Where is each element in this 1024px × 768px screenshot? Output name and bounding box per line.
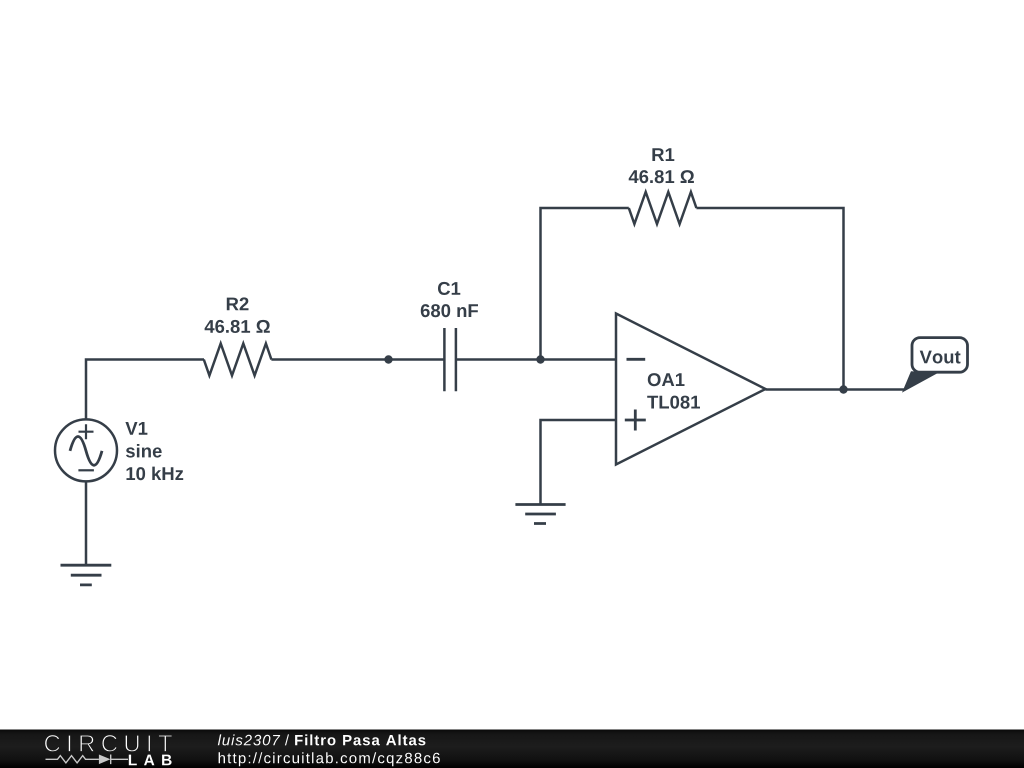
resistor R2	[204, 344, 272, 376]
V1 sine wave	[70, 437, 102, 466]
wire: op-amp output to Vout	[766, 388, 906, 391]
op-amp OA1 minus pin mark	[627, 358, 646, 361]
CircuitLab logo text LAB	[129, 755, 172, 766]
op-amp OA1 plus pin mark	[625, 410, 646, 431]
footer title	[218, 734, 280, 745]
wire: V1 plus terminal up and right to R2	[86, 360, 204, 421]
node: junction C1/feedback	[536, 355, 544, 363]
value label OA1 TL081	[647, 396, 700, 409]
value label C1 680 nF	[421, 304, 478, 317]
capacitor C1 plates	[444, 328, 456, 391]
voltage source V1 circle	[55, 419, 117, 481]
wire: non-inverting input to ground	[541, 420, 617, 504]
logo squiggle resistor	[46, 756, 99, 763]
label R2	[227, 297, 249, 310]
wire: R1 right leg down to output node	[696, 208, 843, 390]
node: junction R2/C1	[384, 355, 392, 363]
wire: V1 minus terminal down to ground	[85, 481, 88, 565]
label C1	[438, 282, 460, 295]
Vout flag box	[912, 338, 968, 373]
V1 minus mark	[78, 469, 94, 471]
node: junction output/feedback	[839, 385, 847, 393]
ground at op-amp non-inverting input	[515, 505, 565, 524]
value label R2 46.81 ohm	[205, 320, 270, 333]
V1 plus mark	[79, 424, 94, 439]
resistor R1	[629, 192, 697, 224]
label Vout	[920, 351, 961, 364]
wire: R2 to C1	[271, 358, 444, 361]
wire: C1 to op-amp inverting input	[456, 358, 616, 361]
label OA1	[648, 373, 685, 386]
footer url	[219, 752, 440, 766]
wire: feedback left leg up to R1	[541, 208, 629, 360]
value label R1 46.81 ohm	[629, 170, 694, 183]
footer bar	[0, 730, 1024, 768]
Vout flag pointer	[903, 372, 937, 392]
value label V1 sine	[126, 444, 162, 458]
ground under V1	[61, 565, 112, 585]
label R1	[652, 148, 674, 161]
value label V1 10 kHz	[127, 467, 184, 481]
CircuitLab logo text CIRCUIT	[45, 735, 172, 752]
label V1	[125, 422, 147, 435]
logo squiggle diode	[99, 755, 111, 765]
op-amp OA1 triangle	[616, 314, 766, 465]
